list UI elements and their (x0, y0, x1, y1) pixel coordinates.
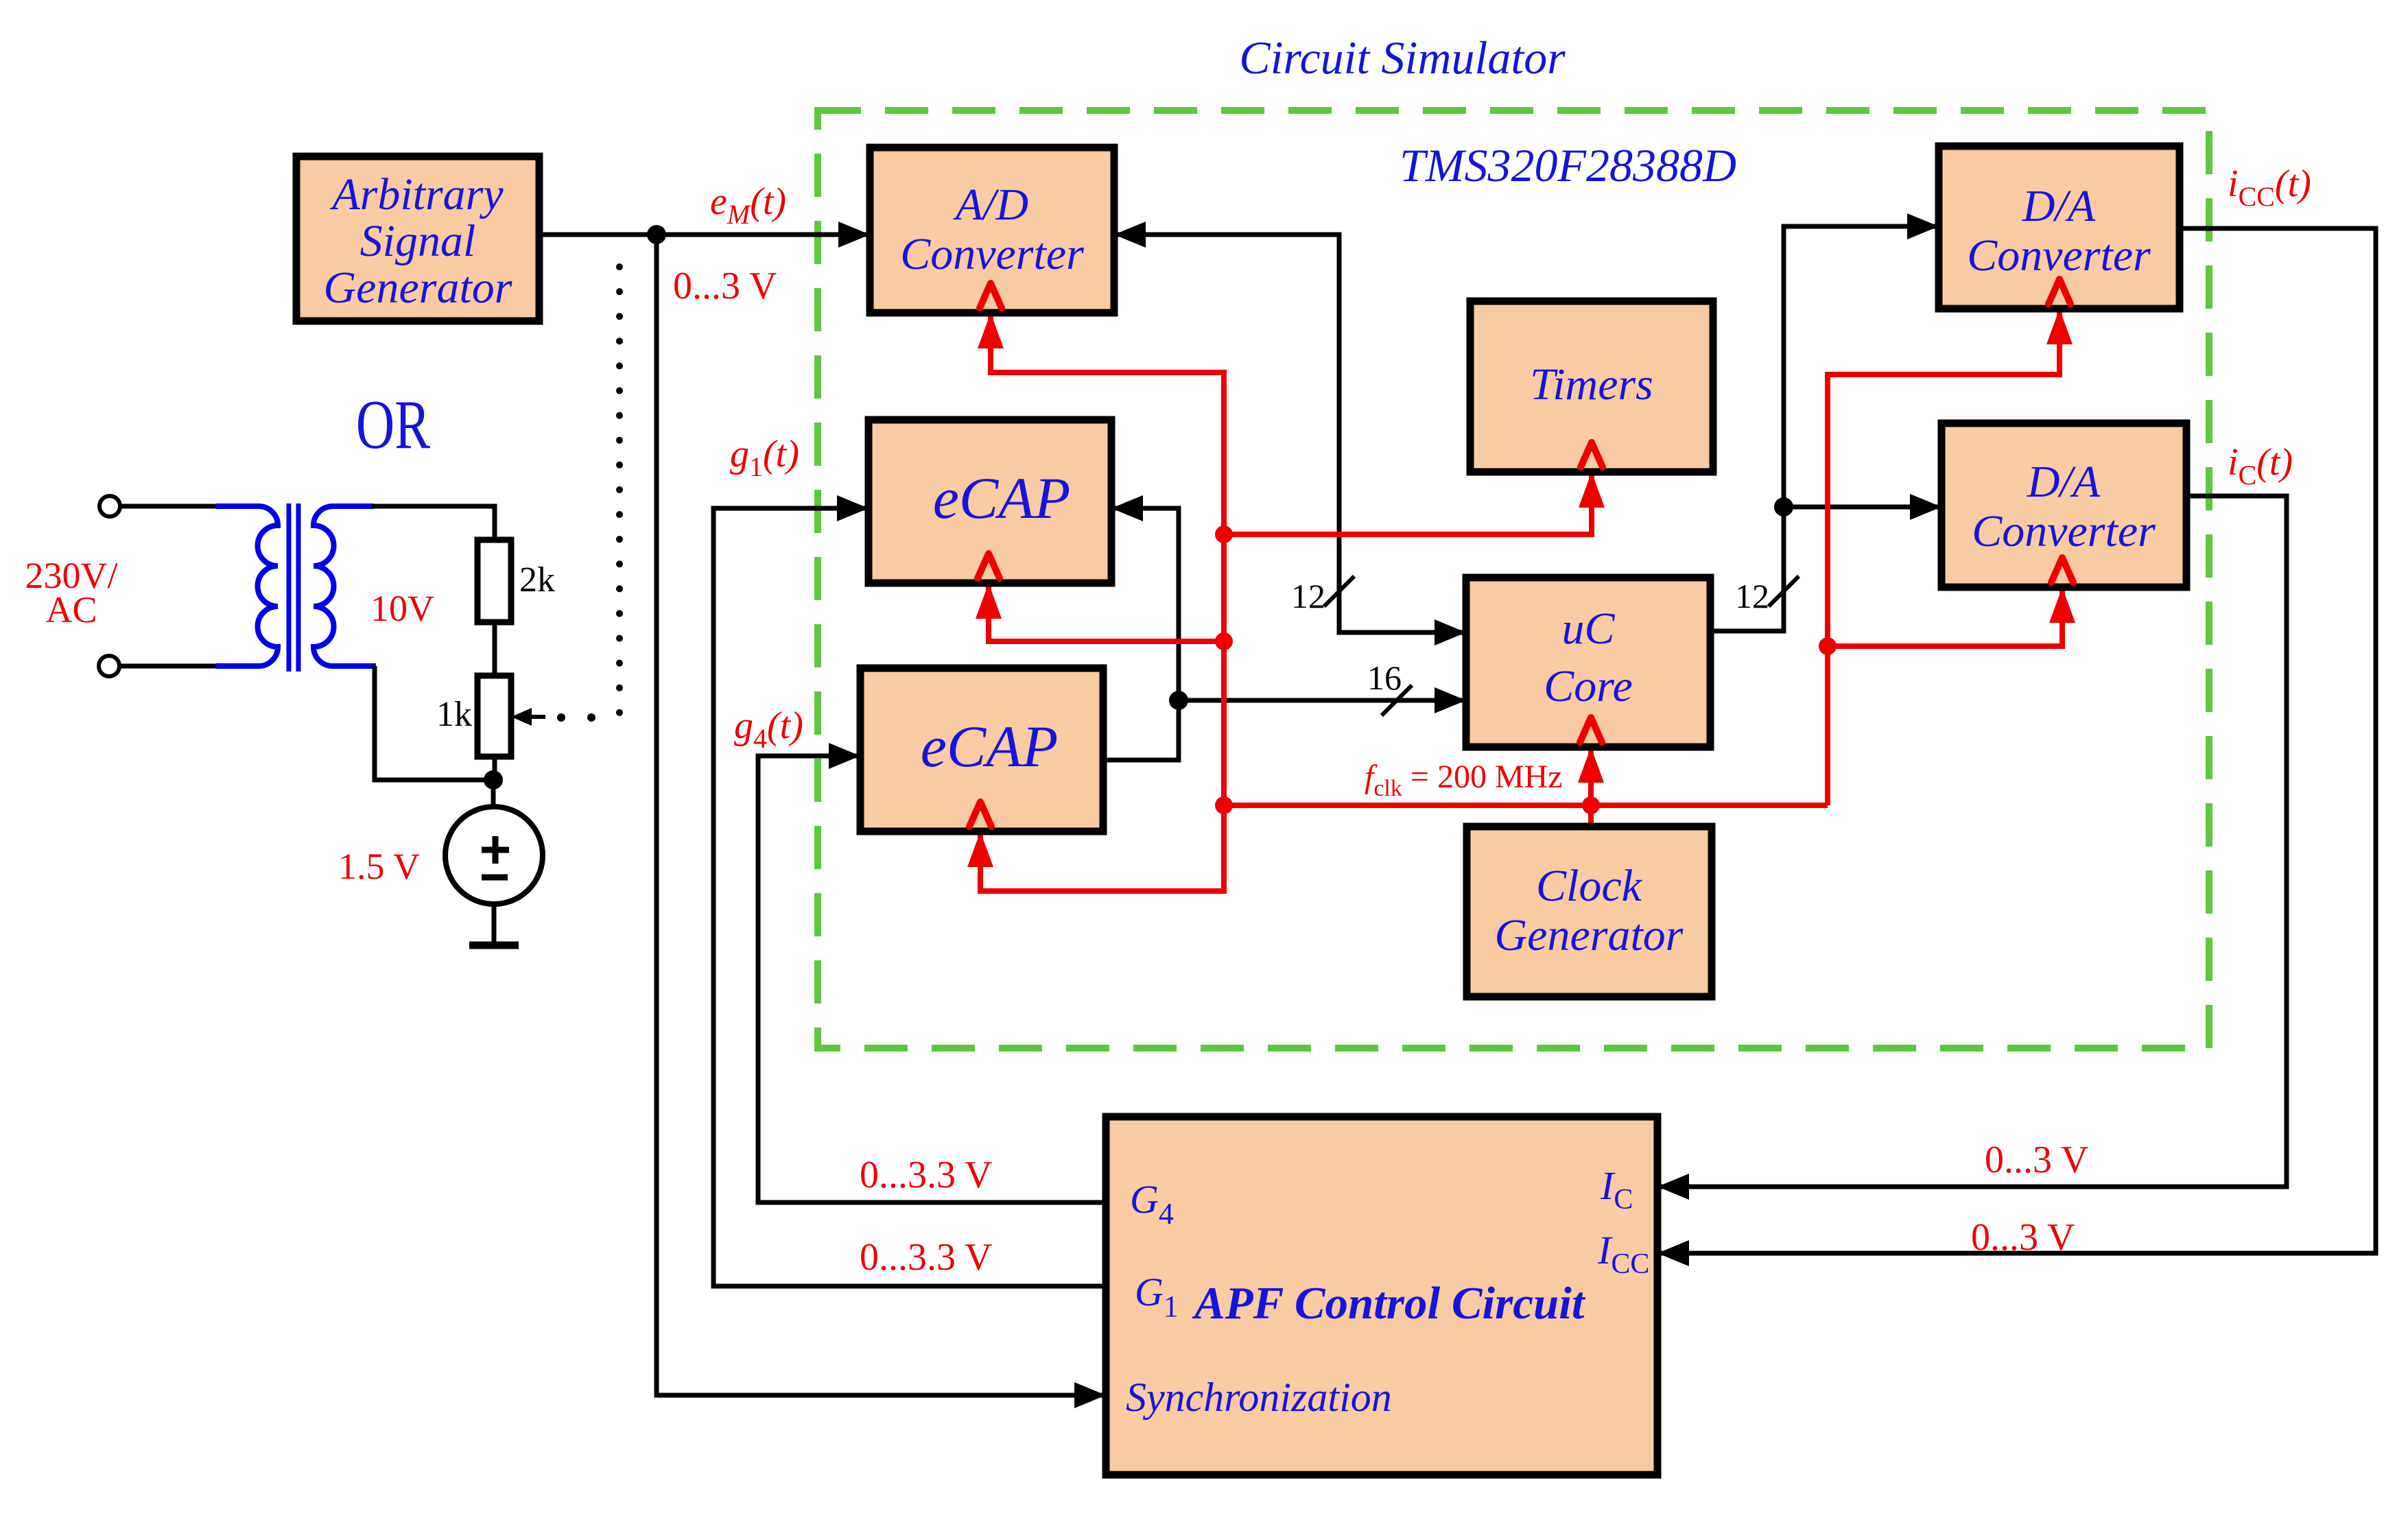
svg-text:g4(t): g4(t) (734, 704, 803, 754)
svg-text:Converter: Converter (900, 229, 1084, 279)
svg-text:Converter: Converter (1967, 230, 2151, 281)
svg-text:16: 16 (1367, 659, 1402, 697)
svg-text:A/D: A/D (953, 180, 1028, 230)
svg-text:Arbitrary: Arbitrary (329, 169, 504, 220)
svg-text:Circuit Simulator: Circuit Simulator (1239, 32, 1566, 84)
svg-text:10V: 10V (370, 588, 434, 629)
svg-text:Timers: Timers (1530, 359, 1653, 410)
svg-text:D/A: D/A (2022, 181, 2096, 231)
svg-text:0...3 V: 0...3 V (1985, 1139, 2088, 1181)
svg-text:Signal: Signal (360, 216, 476, 266)
svg-text:Synchronization: Synchronization (1126, 1375, 1392, 1420)
svg-text:TMS320F28388D: TMS320F28388D (1400, 139, 1736, 191)
svg-text:AC: AC (45, 589, 97, 630)
svg-text:0...3.3 V: 0...3.3 V (860, 1236, 992, 1279)
svg-text:eCAP: eCAP (933, 465, 1071, 531)
svg-text:2k: 2k (519, 560, 555, 600)
svg-text:0...3 V: 0...3 V (673, 265, 777, 307)
svg-text:0...3.3 V: 0...3.3 V (860, 1154, 992, 1196)
svg-text:1k: 1k (436, 695, 472, 734)
svg-text:g1(t): g1(t) (730, 433, 799, 482)
svg-text:0...3 V: 0...3 V (1971, 1216, 2075, 1259)
svg-text:Converter: Converter (1972, 506, 2156, 556)
svg-text:12: 12 (1735, 577, 1769, 615)
svg-text:Generator: Generator (1495, 910, 1684, 960)
svg-text:Generator: Generator (324, 263, 512, 313)
svg-text:eCAP: eCAP (921, 713, 1059, 779)
svg-text:Clock: Clock (1536, 861, 1643, 911)
svg-text:12: 12 (1291, 577, 1325, 615)
svg-text:uC: uC (1561, 604, 1615, 654)
svg-text:OR: OR (356, 386, 431, 463)
svg-text:1.5 V: 1.5 V (338, 846, 420, 887)
svg-text:Core: Core (1544, 661, 1633, 711)
svg-text:APF Control Circuit: APF Control Circuit (1192, 1278, 1586, 1329)
svg-text:D/A: D/A (2027, 457, 2101, 507)
svg-text:iC(t): iC(t) (2228, 441, 2293, 490)
